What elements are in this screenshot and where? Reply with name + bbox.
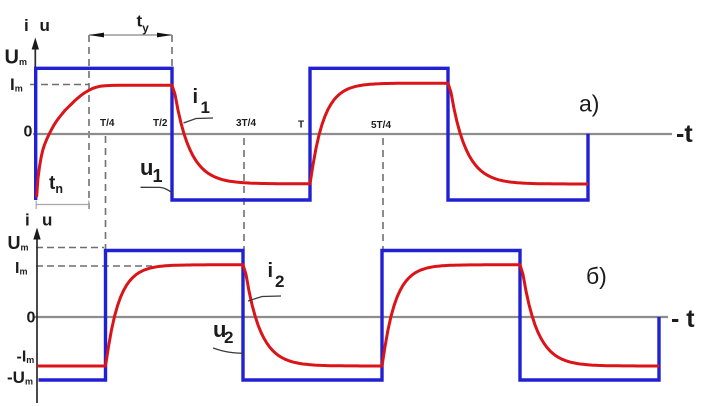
dashed vertical at t_n/t_y boundary — [88, 35, 90, 209]
svg-text:5T/4: 5T/4 — [371, 120, 391, 131]
dashed Im level line top plot — [30, 84, 89, 86]
t_n measure line — [36, 204, 89, 206]
svg-text:1: 1 — [201, 98, 210, 117]
t axis of plot a — [33, 133, 672, 135]
current curve i1 (red) — [37, 83, 587, 196]
t_y right arrowhead — [157, 33, 172, 38]
svg-text:3T/4: 3T/4 — [236, 118, 256, 129]
svg-text:1: 1 — [153, 166, 163, 186]
svg-text:i: i — [268, 260, 274, 282]
leader for u2 — [213, 348, 244, 353]
y axis arrowhead plot b — [33, 228, 40, 240]
t_n left tick — [35, 201, 37, 210]
square wave u2 (blue) — [39, 251, 660, 381]
square wave u1 (blue) — [36, 68, 588, 200]
t axis of plot b — [33, 316, 668, 318]
t_y left arrowhead — [89, 33, 104, 38]
t_y dimension line — [89, 34, 172, 36]
svg-text:0: 0 — [27, 310, 36, 327]
svg-text:u: u — [140, 155, 153, 180]
current curve i2 (red) — [39, 265, 659, 366]
svg-text:i: i — [193, 86, 199, 108]
y axis of plot b — [36, 236, 38, 403]
svg-text:- t: - t — [671, 305, 695, 333]
svg-text:T: T — [298, 120, 304, 131]
svg-text:0: 0 — [24, 124, 33, 141]
dashed vertical at T/2 above wave — [171, 35, 173, 67]
svg-text:-t: -t — [676, 120, 693, 148]
svg-text:i: i — [25, 211, 30, 230]
leader for i2 — [248, 296, 281, 301]
svg-text:u: u — [42, 211, 52, 230]
svg-text:a): a) — [579, 91, 599, 117]
y axis of plot a — [34, 46, 36, 200]
dashed vertical 5T/4 connecting plots — [382, 138, 384, 249]
dashed Um level line bottom plot — [36, 247, 104, 249]
t_n right tick — [88, 201, 90, 210]
svg-text:T/2: T/2 — [153, 118, 168, 129]
svg-text:б): б) — [586, 263, 607, 289]
svg-text:u: u — [40, 16, 50, 35]
svg-text:2: 2 — [275, 272, 284, 291]
dashed vertical 3T/4 connecting plots — [243, 138, 245, 249]
dashed vertical T/4 connecting plots — [105, 136, 107, 249]
svg-text:T/4: T/4 — [100, 118, 115, 129]
dashed Im level line bottom plot — [36, 265, 152, 267]
leader for i1 — [184, 118, 214, 123]
leader for u1 — [141, 187, 174, 193]
y axis arrowhead plot a — [32, 38, 39, 50]
svg-text:i: i — [24, 16, 29, 35]
svg-text:2: 2 — [224, 328, 233, 347]
